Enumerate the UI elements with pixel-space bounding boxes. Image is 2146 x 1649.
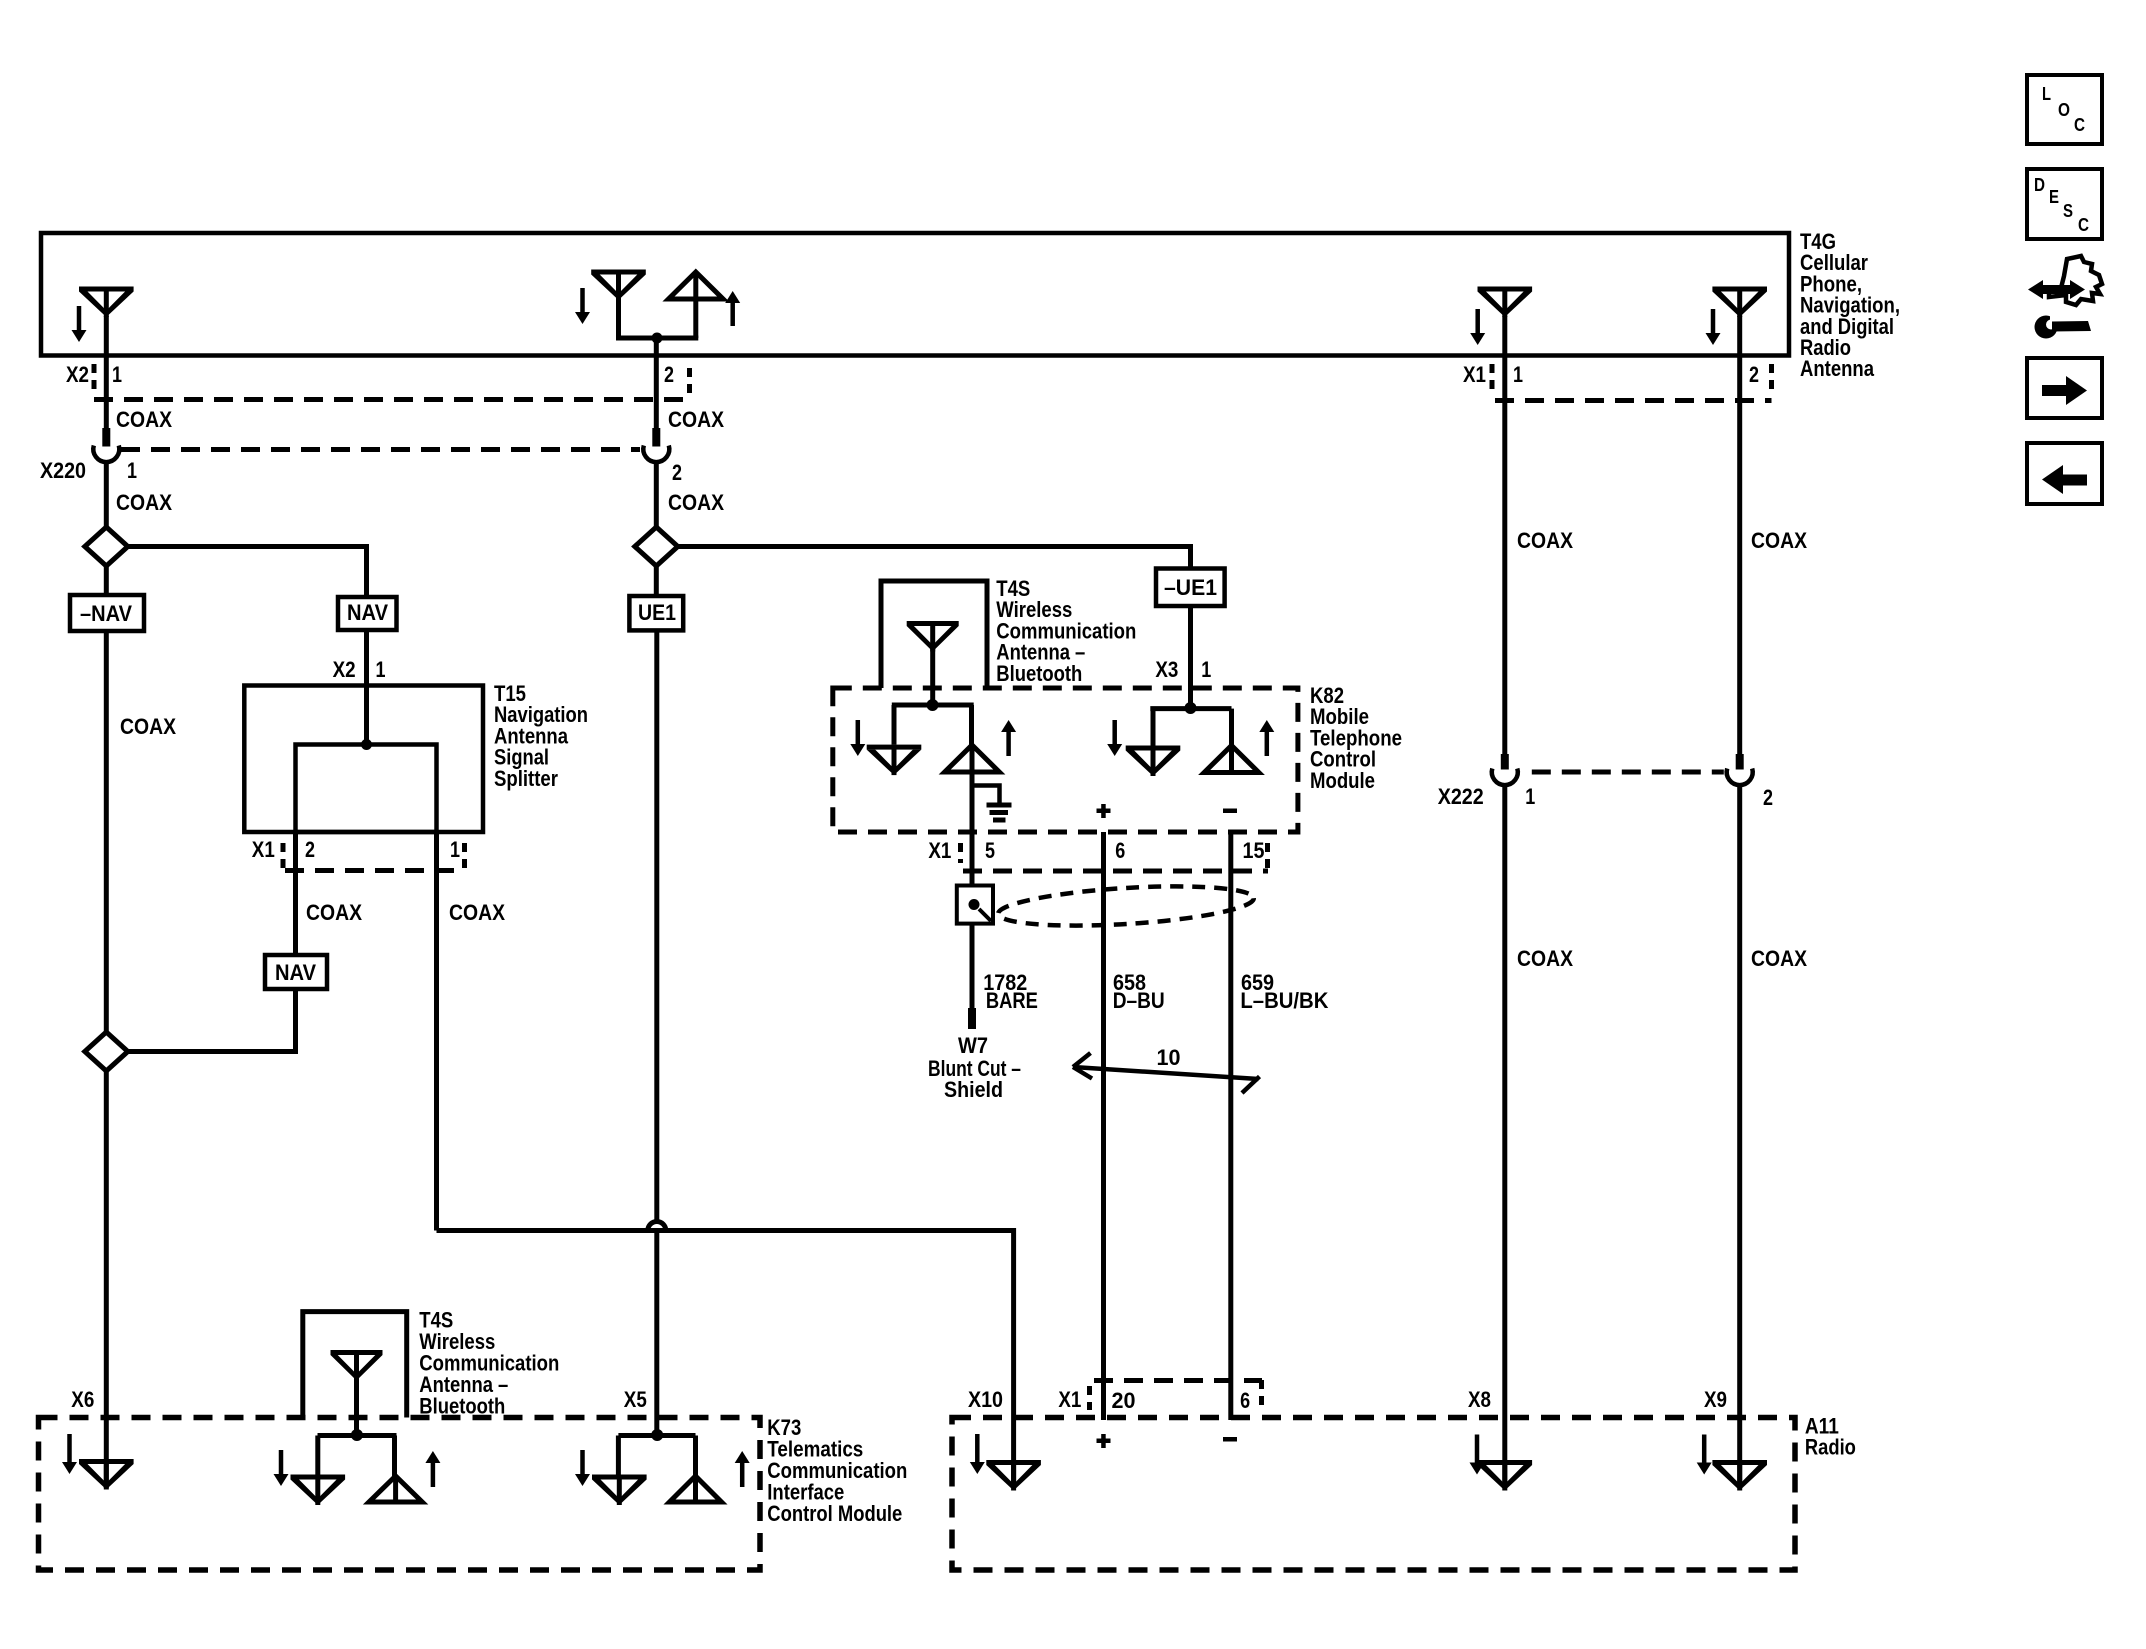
label X8 — [1468, 1387, 1491, 1412]
svg-text:X220: X220 — [40, 458, 86, 483]
pin 6 of K82 — [1115, 838, 1125, 863]
wire UE1 box down to hop — [654, 630, 659, 1221]
wire COAX from X2-2 — [654, 355, 659, 429]
arrow down K82 right — [1107, 720, 1122, 756]
label X9 — [1704, 1387, 1727, 1412]
dashed connector line A11 X1 — [1094, 1378, 1262, 1383]
label X2 of T15 — [333, 657, 356, 682]
option box UE1 — [629, 596, 683, 630]
antenna X10 inside A11 — [986, 1460, 1041, 1491]
wire splice S2 to UE1 box — [654, 565, 659, 596]
pin 1 of X220 — [127, 458, 137, 483]
antenna K82 left receive — [867, 745, 922, 776]
svg-text:20: 20 — [1112, 1388, 1136, 1413]
label COAX X220-2 — [668, 490, 724, 515]
junction dot K73 right pair — [651, 1429, 663, 1441]
label X1 of T15 — [252, 837, 275, 862]
wire bar K82 left pair — [892, 703, 974, 708]
label 658 D-BU — [1113, 970, 1165, 1013]
arrow down X6 — [62, 1434, 77, 1474]
wire COAX X1-2 riser upper — [1737, 355, 1742, 755]
pin 1 of X3 — [1201, 657, 1211, 682]
wire bar K82 right pair — [1150, 706, 1231, 711]
pin 2 of X220 — [672, 460, 682, 485]
pin 2 of X222 — [1763, 785, 1773, 810]
arrow up K82 right — [1259, 720, 1274, 756]
svg-text:1: 1 — [1525, 784, 1535, 809]
tick K82 X1 — [958, 843, 963, 863]
T15 splitter outer box — [244, 686, 483, 833]
antenna T4G element 4 — [1712, 287, 1767, 356]
svg-text:1: 1 — [1513, 362, 1523, 387]
svg-text:COAX: COAX — [668, 407, 724, 432]
label T15 Navigation Antenna Signal Splitter — [494, 681, 588, 791]
back arrow icon box — [2027, 443, 2102, 504]
svg-text:1: 1 — [127, 458, 137, 483]
arrow up at element 2 — [725, 291, 740, 326]
svg-text:Antenna: Antenna — [1800, 356, 1875, 381]
junction dot element 2 — [652, 333, 663, 344]
tick A11 X1 right — [1259, 1380, 1264, 1410]
arrow down at element 1 — [72, 306, 87, 342]
tick X1 — [1490, 364, 1495, 394]
svg-text:X5: X5 — [624, 1387, 647, 1412]
label W7 Blunt Cut Shield — [928, 1033, 1021, 1102]
label X220 — [40, 458, 86, 483]
wire S1 branch to NAV box — [128, 547, 367, 598]
A11 radio dashed box — [952, 1418, 1795, 1571]
svg-text:2: 2 — [305, 837, 315, 862]
connector X220 cavity 1 — [93, 428, 119, 462]
harness count arrow 10 — [1073, 1053, 1260, 1093]
label A11 Radio — [1805, 1414, 1856, 1460]
wire -NAV to splice S3 — [104, 631, 109, 1032]
svg-text:D: D — [2034, 175, 2045, 195]
T4S antenna box lower — [303, 1312, 407, 1418]
svg-text:6: 6 — [1115, 838, 1125, 863]
pin 2 of T15 X1 — [305, 837, 315, 862]
label X6 — [71, 1387, 94, 1412]
svg-text:6: 6 — [1240, 1388, 1250, 1413]
label K73 Telematics Communication Interface Control Module — [767, 1415, 907, 1526]
arrow down K73 right — [575, 1450, 590, 1486]
wire drop K73 right transmit — [693, 1436, 698, 1477]
junction dot T15 — [361, 739, 372, 750]
wire splice S3 to X6 — [104, 1071, 109, 1488]
arrow up K82 left — [1001, 720, 1016, 756]
location icon box (LOC) — [2027, 75, 2102, 144]
pin 1 of X222 — [1525, 784, 1535, 809]
shield dashed ellipse — [997, 880, 1255, 932]
svg-text:NAV: NAV — [275, 960, 316, 985]
pin 1 of T15 X1 — [450, 837, 460, 862]
junction dot K73 left pair — [351, 1429, 363, 1441]
description icon box (DESC) — [2027, 169, 2102, 239]
svg-text:O: O — [2058, 100, 2070, 120]
svg-text:X8: X8 — [1468, 1387, 1491, 1412]
svg-text:COAX: COAX — [1517, 528, 1573, 553]
svg-text:X1: X1 — [1058, 1387, 1081, 1412]
label COAX T15 pin1 — [449, 900, 505, 925]
pin 1 of T15 X2 — [376, 657, 386, 682]
arrow down at element 4 — [1706, 309, 1721, 345]
junction dot K82 left pair — [927, 699, 939, 711]
pin 2 of X2 — [664, 362, 674, 387]
svg-text:BARE: BARE — [986, 988, 1038, 1013]
wire hop over T15-X10 line — [648, 1222, 666, 1231]
pin 1 of X1 — [1513, 362, 1523, 387]
svg-text:L: L — [2042, 84, 2051, 104]
antenna X9 inside A11 — [1712, 1460, 1767, 1491]
arrow down X10 — [970, 1434, 985, 1474]
splice diamond S2 — [635, 527, 678, 566]
svg-text:2: 2 — [672, 460, 682, 485]
wire COAX X220-1 to splice — [104, 460, 109, 527]
svg-text:10: 10 — [1157, 1045, 1181, 1070]
svg-text:15: 15 — [1243, 838, 1265, 863]
antenna T4G element 3 — [1478, 287, 1533, 356]
label X3 — [1155, 657, 1178, 682]
tick T15 X1 — [281, 843, 286, 870]
wire T15 pin1 across to X10 — [437, 1231, 1014, 1489]
svg-text:X2: X2 — [66, 362, 89, 387]
label X1 top — [1463, 362, 1486, 387]
junction dot K82 right pair — [1185, 702, 1197, 714]
label COAX right1 upper — [1517, 528, 1573, 553]
blunt cut end W7 — [968, 1008, 976, 1029]
arrow up K73 left — [425, 1451, 440, 1487]
antenna X6 inside K73 — [79, 1459, 134, 1490]
wire drop to K82 right transmit — [1229, 709, 1234, 746]
svg-text:COAX: COAX — [116, 490, 172, 515]
antenna K73 right receive — [592, 1475, 647, 1506]
wire NAV box to T15 X2-1 — [364, 630, 369, 686]
wire 1782 BARE shield — [970, 772, 975, 1008]
dashed connector line X222 — [1532, 770, 1724, 775]
pin 6 of A11 — [1240, 1388, 1250, 1413]
svg-text:X3: X3 — [1155, 657, 1178, 682]
wire COAX X220-2 to splice — [654, 460, 659, 527]
tick X1 pin2 — [1769, 364, 1774, 394]
svg-text:S: S — [2063, 201, 2073, 221]
diagnostic wrench icon — [2028, 256, 2102, 339]
label K82 Mobile Telephone Control Module — [1310, 683, 1402, 793]
svg-text:C: C — [2074, 115, 2085, 135]
svg-text:COAX: COAX — [116, 407, 172, 432]
svg-text:2: 2 — [1763, 785, 1773, 810]
pin 2 of X1 — [1749, 362, 1759, 387]
label X2 — [66, 362, 89, 387]
svg-text:D–BU: D–BU — [1113, 988, 1165, 1013]
svg-text:COAX: COAX — [306, 900, 362, 925]
K82 module dashed box — [833, 688, 1298, 832]
svg-text:Radio: Radio — [1805, 1435, 1856, 1460]
svg-text:W7: W7 — [958, 1033, 988, 1058]
antenna K73 right transmit — [670, 1476, 722, 1502]
arrow down at element 3 — [1470, 309, 1485, 345]
label T4S Wireless Communication Antenna Bluetooth lower — [419, 1308, 559, 1419]
svg-text:Shield: Shield — [944, 1077, 1003, 1102]
svg-text:E: E — [2049, 187, 2059, 207]
dashed connector line X2 — [94, 397, 690, 402]
label COAX right2 lower — [1751, 946, 1807, 971]
wire shield to ground branch — [972, 772, 1000, 803]
dashed connector line T15 X1 — [285, 868, 459, 873]
antenna K82 right receive — [1126, 746, 1181, 777]
arrow down K82 left — [850, 720, 865, 756]
antenna T4G element 2 transmit — [669, 272, 724, 338]
wire drop to K82 left receive — [892, 705, 897, 745]
label 659 L-BU/BK — [1240, 970, 1328, 1013]
wire T15 internal stub — [364, 686, 369, 745]
shield connector box — [957, 886, 993, 924]
antenna K73 left transmit — [369, 1476, 422, 1502]
svg-text:2: 2 — [664, 362, 674, 387]
svg-text:COAX: COAX — [1751, 946, 1807, 971]
arrow up K73 right — [735, 1451, 750, 1487]
tick X2 pin2 — [687, 368, 692, 396]
wire element2 stem to box edge — [654, 338, 659, 355]
dashed connector line X1 — [1495, 398, 1772, 403]
pin 5 of K82 — [985, 838, 995, 863]
option box -UE1 — [1156, 569, 1225, 607]
ground symbol — [987, 805, 1012, 820]
svg-text:X10: X10 — [968, 1387, 1003, 1412]
wire 658 D-BU — [1101, 832, 1106, 1420]
arrow down X9 — [1697, 1435, 1712, 1475]
wire COAX T15 pin1 — [434, 832, 439, 1231]
wire bar joining element 2 pair — [616, 336, 698, 341]
label 1782 BARE — [983, 970, 1038, 1013]
label minus A11 — [1223, 1437, 1237, 1442]
antenna T4G element 1 — [79, 287, 134, 356]
svg-text:COAX: COAX — [1751, 528, 1807, 553]
svg-text:1: 1 — [450, 837, 460, 862]
wire drop K73 left transmit — [392, 1436, 397, 1477]
wire COAX X222-2 to X9 — [1737, 783, 1742, 1488]
arrow down X8 — [1470, 1435, 1485, 1475]
antenna K73 left receive — [291, 1475, 346, 1506]
svg-text:1: 1 — [376, 657, 386, 682]
tick X2 — [92, 364, 97, 394]
wire -UE1 to K82 X3-1 — [1188, 606, 1193, 708]
svg-text:COAX: COAX — [1517, 946, 1573, 971]
option box NAV lower — [265, 955, 327, 989]
label T4G Cellular Phone Navigation and Digital Radio Antenna — [1800, 229, 1900, 381]
label plus K82 — [1097, 804, 1111, 818]
antenna K82 right transmit — [1204, 746, 1259, 773]
wire NAV lower to splice S3 — [128, 989, 296, 1052]
tick K82 X1 right — [1265, 843, 1270, 871]
svg-text:COAX: COAX — [120, 714, 176, 739]
pin 20 of A11 — [1112, 1388, 1136, 1413]
svg-text:Splitter: Splitter — [494, 766, 558, 791]
svg-text:5: 5 — [985, 838, 995, 863]
label COAX X2-2 — [668, 407, 724, 432]
wire hop to X5 — [654, 1232, 659, 1436]
svg-text:COAX: COAX — [449, 900, 505, 925]
wire COAX from X2-1 — [104, 355, 109, 429]
svg-text:2: 2 — [1749, 362, 1759, 387]
connector X220 cavity 2 — [643, 428, 669, 462]
wire drop K73 right receive — [616, 1436, 621, 1475]
connector X222 cavity 2 — [1727, 754, 1753, 785]
svg-text:X6: X6 — [71, 1387, 94, 1412]
label plus A11 — [1097, 1434, 1111, 1448]
label T4S Wireless Communication Antenna Bluetooth upper — [996, 576, 1136, 686]
wire bar K73 right pair — [618, 1433, 695, 1438]
label COAX T15 pin2 — [306, 900, 362, 925]
T15 splitter inner box — [296, 745, 437, 833]
wire drop to K82 left transmit — [969, 705, 974, 745]
svg-text:C: C — [2078, 215, 2089, 235]
label X222 — [1438, 784, 1484, 809]
svg-text:X1: X1 — [928, 838, 951, 863]
T4S antenna box upper — [881, 581, 987, 688]
wire COAX X1-1 riser upper — [1502, 355, 1507, 755]
svg-text:X2: X2 — [333, 657, 356, 682]
pin 15 of K82 — [1243, 838, 1265, 863]
tick A11 X1 — [1087, 1386, 1092, 1410]
label COAX X220-1 — [116, 490, 172, 515]
wire drop to K82 right receive — [1151, 709, 1156, 746]
label COAX X2-1 — [116, 407, 172, 432]
K73 module dashed box — [39, 1418, 761, 1571]
antenna T4S lower element — [331, 1350, 383, 1436]
splice diamond S3 — [85, 1032, 128, 1071]
svg-text:1: 1 — [112, 362, 122, 387]
svg-text:X222: X222 — [1438, 784, 1484, 809]
T4G antenna module box — [41, 233, 1789, 356]
wire S2 branch to -UE1 box — [678, 547, 1191, 569]
pin 1 of X2 — [112, 362, 122, 387]
label X10 — [968, 1387, 1003, 1412]
svg-text:UE1: UE1 — [638, 600, 676, 625]
arrow down at element 2 — [575, 288, 590, 324]
svg-text:Control Module: Control Module — [767, 1501, 902, 1526]
antenna T4G element 2 receive — [591, 270, 646, 339]
dashed connector line K82 X1 — [963, 869, 1268, 874]
connector X222 cavity 1 — [1492, 754, 1518, 785]
svg-text:COAX: COAX — [668, 490, 724, 515]
antenna X8 inside A11 — [1478, 1460, 1533, 1491]
label X1 of A11 — [1058, 1387, 1081, 1412]
wire COAX X222-1 to X8 — [1502, 783, 1507, 1488]
svg-text:X9: X9 — [1704, 1387, 1727, 1412]
arrow down K73 left — [274, 1450, 289, 1486]
svg-text:X1: X1 — [1463, 362, 1486, 387]
svg-text:NAV: NAV — [347, 600, 388, 625]
label X5 — [624, 1387, 647, 1412]
svg-text:–UE1: –UE1 — [1164, 575, 1217, 600]
label COAX right2 upper — [1751, 528, 1807, 553]
option box NAV — [338, 597, 397, 630]
svg-text:Module: Module — [1310, 768, 1375, 793]
svg-text:1: 1 — [1201, 657, 1211, 682]
wire COAX T15 pin2 — [293, 832, 298, 955]
svg-text:L–BU/BK: L–BU/BK — [1240, 988, 1328, 1013]
splice diamond S1 — [85, 527, 128, 566]
wire bar K73 left pair — [318, 1433, 397, 1438]
tick T15 X1 pin1 — [462, 843, 467, 871]
option box -NAV — [70, 595, 144, 631]
dashed connector line X220 — [121, 447, 640, 452]
label COAX right1 lower — [1517, 946, 1573, 971]
antenna K82 left transmit — [945, 745, 1000, 772]
label COAX left riser — [120, 714, 176, 739]
wire drop K73 left receive — [315, 1436, 320, 1475]
svg-text:Bluetooth: Bluetooth — [419, 1394, 505, 1419]
svg-text:Bluetooth: Bluetooth — [996, 661, 1082, 686]
label X1 of K82 — [928, 838, 951, 863]
forward arrow icon box — [2027, 358, 2102, 418]
wire splice S1 to -NAV box — [104, 566, 109, 595]
svg-text:–NAV: –NAV — [80, 601, 132, 626]
antenna T4S upper element — [907, 621, 959, 705]
label 10 — [1157, 1045, 1181, 1070]
svg-text:X1: X1 — [252, 837, 275, 862]
wire 659 L-BU/BK — [1228, 832, 1233, 1420]
label minus K82 — [1223, 809, 1237, 814]
